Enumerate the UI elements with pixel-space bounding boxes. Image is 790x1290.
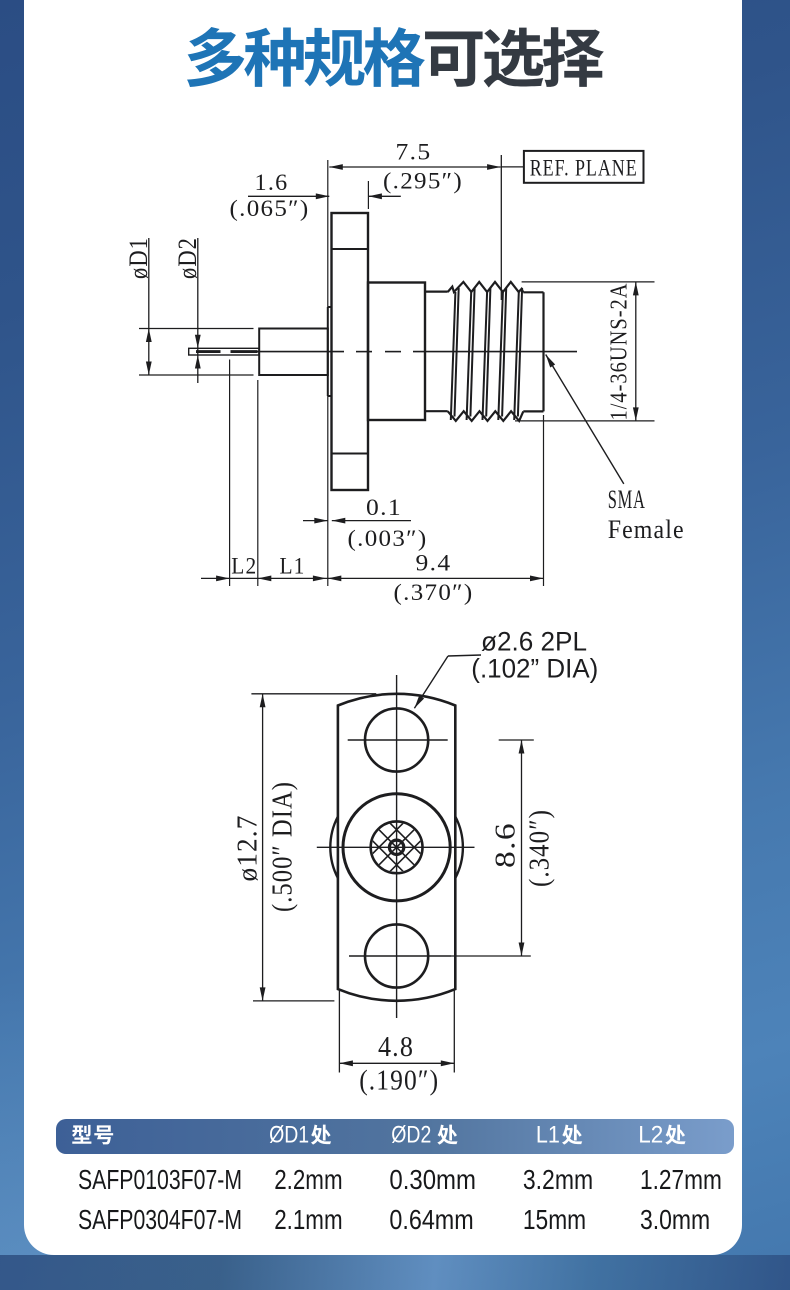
svg-text:(.295″): (.295″) (383, 169, 463, 194)
SMA Female label and leader (546, 355, 624, 484)
center socket ring (389, 840, 403, 854)
svg-text:Female: Female (608, 515, 685, 544)
pin center line dash (196, 350, 221, 353)
Ø12.7 bottom extension line (253, 1000, 334, 1002)
thread OD bottom extension line (515, 420, 655, 422)
thin gasket plate (0.1) (327, 307, 329, 396)
svg-text:15mm: 15mm (523, 1204, 586, 1235)
svg-text:7.5: 7.5 (396, 140, 432, 165)
svg-text:4.8: 4.8 (378, 1032, 414, 1063)
mounting hole top (Ø2.6) (365, 708, 428, 771)
flange (side view) (332, 213, 369, 490)
pin center line dash 2 (231, 350, 258, 353)
top hole center line (348, 739, 448, 741)
end section top line (523, 291, 543, 293)
dielectric cylinder (ØD1) (259, 329, 328, 376)
body silhouette bulge right (455, 817, 463, 879)
8.6 top extension line (499, 739, 534, 741)
flange lower edge line (332, 453, 369, 455)
svg-text:8.6: 8.6 (490, 822, 522, 868)
svg-text:REF. PLANE: REF. PLANE (530, 156, 638, 181)
8.6 bottom extension line (451, 955, 530, 957)
thread OD top extension line (522, 281, 655, 283)
svg-text:L2: L2 (638, 1122, 663, 1149)
svg-text:3.2mm: 3.2mm (523, 1164, 593, 1195)
Ø12.7 top extension line (251, 693, 376, 695)
svg-text:2.2mm: 2.2mm (274, 1164, 342, 1195)
svg-text:øD2: øD2 (173, 237, 202, 279)
side view center axis line (258, 351, 345, 353)
svg-text:0.30mm: 0.30mm (389, 1164, 476, 1195)
9.4 left arrow (328, 576, 342, 582)
connector body cylinder (368, 283, 425, 421)
svg-text:ØD2: ØD2 (391, 1122, 431, 1149)
svg-text:3.0mm: 3.0mm (640, 1204, 710, 1235)
blue gradient background (0, 710, 790, 1290)
svg-text:(.370″): (.370″) (394, 580, 474, 605)
cylinder face extension line (257, 380, 259, 586)
thread relief bottom line (425, 410, 448, 412)
svg-text:(.065″): (.065″) (230, 196, 310, 221)
1.6 right extension line (367, 181, 369, 209)
4.8 right extension line (453, 990, 455, 1073)
4.8 left extension line (338, 990, 340, 1073)
REF. PLANE box (501, 166, 524, 168)
body silhouette bulge left (330, 817, 338, 879)
svg-text:øD1: øD1 (124, 237, 153, 279)
svg-text:(.500″ DIA): (.500″ DIA) (268, 781, 299, 912)
flange outline (front) (338, 694, 455, 1001)
svg-text:(.340″): (.340″) (525, 809, 556, 887)
svg-text:SMA: SMA (608, 485, 646, 514)
chain dimension line (201, 577, 544, 579)
dimension ØD2 (197, 238, 199, 383)
thread profile 1/4-36UNS-2A (448, 282, 524, 292)
front view horizontal center line (317, 846, 475, 848)
L1 right arrow (313, 576, 327, 582)
dimension 1.6 (.065") (248, 195, 329, 197)
dielectric circle (371, 821, 423, 873)
label Ø2.6 2PL (.102" DIA) with leader (448, 655, 481, 656)
svg-text:SAFP0304F07-M: SAFP0304F07-M (78, 1204, 242, 1235)
svg-text:SAFP0103F07-M: SAFP0103F07-M (78, 1164, 242, 1195)
svg-text:1.27mm: 1.27mm (640, 1164, 722, 1195)
L2 right arrow (258, 576, 272, 582)
svg-text:1.6: 1.6 (255, 170, 289, 195)
title 多种规格可选择 (187, 27, 244, 87)
bottom hole center line (349, 955, 451, 957)
svg-text:L1: L1 (536, 1122, 560, 1149)
svg-text:9.4: 9.4 (416, 551, 452, 576)
svg-text:1/4-36UNS-2A: 1/4-36UNS-2A (607, 283, 633, 421)
svg-text:L1: L1 (280, 554, 306, 579)
ØD1 bottom extension line (139, 374, 254, 376)
end section bottom line (523, 410, 543, 412)
dimension ØD1 (148, 238, 150, 375)
ØD1 top extension line (139, 328, 254, 330)
svg-text:ø12.7: ø12.7 (232, 815, 264, 882)
svg-text:L2: L2 (231, 554, 257, 579)
flange upper edge line (332, 248, 369, 250)
svg-text:(.003″): (.003″) (348, 526, 428, 551)
extension line at flange front face (327, 160, 329, 586)
svg-text:ø2.6 2PL: ø2.6 2PL (481, 627, 587, 657)
front view vertical center line (396, 675, 398, 1018)
9.4 right arrow (530, 576, 544, 582)
dimension 0.1 (.003") (303, 520, 328, 522)
connector end face (542, 292, 544, 411)
thread relief top line (425, 291, 448, 293)
end-face extension line (543, 415, 545, 586)
center pin (ØD2) (189, 348, 259, 355)
table header bar (0, 0, 1, 1)
svg-text:ØD1: ØD1 (269, 1122, 309, 1149)
mounting hole bottom (Ø2.6) (365, 924, 428, 987)
thread flank lines (451, 288, 522, 420)
svg-text:(.190″): (.190″) (359, 1066, 439, 1097)
REF plane extension line (500, 155, 502, 300)
pin-tip extension line (229, 360, 231, 587)
interface outer circle (343, 794, 450, 901)
svg-text:(.102” DIA): (.102” DIA) (471, 654, 598, 684)
svg-text:0.1: 0.1 (366, 495, 402, 520)
L2 left arrow (216, 576, 230, 582)
header 型号 (72, 1125, 91, 1144)
svg-text:2.1mm: 2.1mm (274, 1204, 342, 1235)
svg-text:0.64mm: 0.64mm (389, 1204, 473, 1235)
